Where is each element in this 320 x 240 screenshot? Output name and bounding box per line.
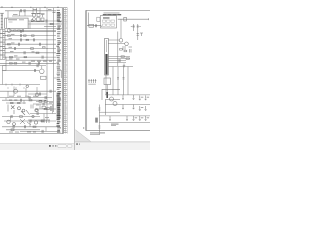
vert wire x99.4 <box>98 105 100 136</box>
vert drop x113 <box>112 67 114 95</box>
pin strip dark overlay2 <box>57 12 60 22</box>
parts list text column <box>64 9 67 133</box>
transistor Q1 <box>7 29 11 33</box>
text row y132 <box>9 131 36 134</box>
pin strip dark <box>106 92 108 98</box>
page number 1 <box>83 127 84 129</box>
right status bar glyphs <box>76 143 80 145</box>
vert drop x128 <box>127 67 129 95</box>
signal wire row 1 <box>5 30 56 32</box>
cap C12 <box>137 24 139 31</box>
scan corner shadow <box>75 130 91 142</box>
wire row y30.6 <box>11 30 56 32</box>
wire y66.5 <box>108 66 133 68</box>
wire stub left <box>0 12 4 14</box>
terminal ladder <box>1 13 3 29</box>
pin strip dark overlay1 <box>57 93 61 120</box>
under-frame text <box>90 132 105 133</box>
frame bottom edge <box>0 133 63 135</box>
vertical bus x47 <box>46 8 48 120</box>
wire row y126.8 <box>2 126 60 128</box>
right status bar <box>75 142 150 150</box>
wire to J2 <box>118 18 149 20</box>
frame top border <box>0 7 67 9</box>
label T1 <box>13 13 18 16</box>
wire tick x148 <box>147 18 149 20</box>
wire row y131.4 <box>20 130 60 132</box>
wire y60.6 <box>108 60 126 62</box>
junction dots y88 <box>8 88 25 89</box>
diode bridge cluster <box>8 105 30 116</box>
branch y112 <box>99 111 120 113</box>
wire y56.6 <box>108 56 130 58</box>
wire row y24 <box>28 23 62 25</box>
IC U11 tall body <box>105 38 109 75</box>
fuse F1 box <box>89 24 94 27</box>
signal wire row 4 <box>5 43 56 45</box>
frame bottom border <box>86 130 150 132</box>
wire row y101.5 right <box>36 101 53 103</box>
motor M1 <box>14 89 18 93</box>
connector P1 box <box>97 17 100 21</box>
frame top border <box>86 9 150 11</box>
decoupling caps <box>109 95 147 120</box>
terminal box mid <box>2 66 6 71</box>
filter box FL1 <box>104 78 111 85</box>
labels near buses <box>141 96 144 99</box>
wire row A <box>5 10 56 12</box>
wire y58.6 <box>108 58 130 60</box>
wire row y63.3 <box>0 62 56 64</box>
wire x107.2 <box>106 85 108 93</box>
wire row y103 <box>6 102 26 104</box>
wire row y70.5 <box>2 70 39 72</box>
signal wire row 3 <box>5 39 56 41</box>
wire y84.5 <box>0 84 40 86</box>
shield box outer <box>102 89 120 100</box>
IC pin-label strip <box>56 10 61 133</box>
wire row B <box>12 15 33 17</box>
bus y104.5 <box>105 104 150 106</box>
wire row y21 <box>28 20 62 22</box>
wire row y109 right <box>36 108 56 110</box>
wire row y26.5 <box>44 26 56 28</box>
connector J2 box <box>124 17 127 21</box>
ground sym1 <box>123 64 125 68</box>
small lamp <box>26 85 28 87</box>
comp cluster y48 <box>123 46 132 50</box>
vertical label C20 <box>95 118 98 123</box>
vertical wire x121 <box>120 19 122 38</box>
wire row y121 <box>4 120 56 122</box>
branch y122.4 <box>99 121 150 123</box>
diode D5 cluster <box>137 31 144 40</box>
bus y115.9 <box>99 115 150 117</box>
wire row y113.5 right <box>30 113 56 115</box>
IC U10 body <box>100 16 116 29</box>
frame right double border <box>62 8 63 134</box>
input wire <box>87 13 101 26</box>
wire row y116.5 <box>2 116 40 118</box>
transistor Q4 <box>7 120 10 123</box>
transistor Q3 <box>35 93 39 97</box>
cap value texts <box>131 25 133 28</box>
shield box inner <box>106 99 120 115</box>
sheet header marks <box>1 6 59 8</box>
signal wire row 7 <box>5 56 56 58</box>
text row y61.2 <box>31 60 52 63</box>
vertical note text <box>60 70 63 78</box>
vertical wire x117.8 <box>117 32 119 67</box>
cap C10 <box>96 24 97 27</box>
wire y62.6 <box>108 62 126 64</box>
relay K1 box <box>5 18 28 28</box>
bus y94.9 <box>105 94 150 96</box>
signal wire row 2 <box>5 35 56 37</box>
frame left double border <box>86 10 87 130</box>
transistor Q2 <box>40 69 45 74</box>
cap drops C1 <box>8 11 25 18</box>
text specks y96.3 <box>9 95 36 98</box>
diag lower <box>20 119 31 125</box>
vertical bus x53.6 <box>53 8 55 112</box>
comps right of bridge <box>31 105 39 109</box>
wire row y60.2 <box>6 59 56 61</box>
inter-row vertical links <box>6 91 52 131</box>
cluster boxes y107 <box>42 106 45 109</box>
cap bank C15-18 <box>88 79 96 83</box>
wire y40 with Q10 <box>108 39 119 41</box>
wire row y120 right <box>28 119 50 121</box>
wire row y28.6 <box>28 28 62 30</box>
comp cluster bottom <box>42 119 49 123</box>
bias box <box>41 76 47 79</box>
IC U10 title bar <box>103 14 121 15</box>
text dims <box>111 124 119 125</box>
vert drop x118 <box>117 67 119 95</box>
parts list table grid <box>64 8 68 134</box>
vert drop x123.5 <box>123 67 125 95</box>
wire y43.5 with Q11 <box>108 43 124 45</box>
terminal drop mid <box>1 71 3 85</box>
signal wire row 5 <box>5 48 56 50</box>
wire row y100.2 <box>2 99 46 101</box>
wire row y97.6 <box>0 97 52 99</box>
IC U11 label strip <box>105 54 107 75</box>
vert x106 <box>105 75 107 95</box>
page divider <box>73 0 76 150</box>
wire row y94 right <box>28 93 47 95</box>
transistor Q12 <box>110 97 114 101</box>
transistor Q13 <box>113 102 117 106</box>
wire row y129.8 <box>6 129 40 131</box>
wire row y65.6 <box>0 65 46 67</box>
left status bar <box>0 144 74 150</box>
cap C11 <box>133 24 135 31</box>
vertical drops mid <box>14 87 37 97</box>
wire row y104 right <box>33 103 52 105</box>
connector J1 table <box>0 29 5 59</box>
left status bar controls <box>49 144 72 147</box>
IC U10 top text <box>104 12 120 15</box>
signal wire row 6 <box>5 52 56 54</box>
transistor Q5 <box>34 121 37 124</box>
vertical link x30 <box>29 21 31 29</box>
mixer cluster U2 <box>31 8 45 22</box>
vertical bus x6 <box>5 57 7 66</box>
